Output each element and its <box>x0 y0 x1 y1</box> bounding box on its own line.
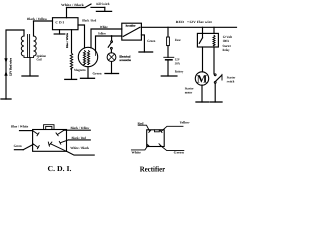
svg-text:White: White <box>131 151 141 155</box>
svg-text:White / Black: White / Black <box>61 3 84 7</box>
svg-text:White / Black: White / Black <box>70 146 89 150</box>
svg-text:switch: switch <box>227 80 235 84</box>
svg-text:Coil: Coil <box>37 57 42 61</box>
svg-text:Black / Yellow: Black / Yellow <box>27 17 48 21</box>
svg-text:Green: Green <box>14 144 22 148</box>
svg-text:Black / Yellow: Black / Yellow <box>71 126 90 130</box>
svg-text:Green: Green <box>174 151 184 155</box>
svg-text:100A: 100A <box>223 39 230 43</box>
svg-text:12V Red wire: 12V Red wire <box>8 57 12 76</box>
svg-text:motor: motor <box>185 90 193 94</box>
svg-text:C D I: C D I <box>55 21 64 25</box>
svg-text:Rectifier: Rectifier <box>140 164 166 173</box>
svg-text:Green: Green <box>93 72 102 76</box>
svg-text:Battery: Battery <box>175 69 184 73</box>
svg-text:RED +12V Flat wire: RED +12V Flat wire <box>176 20 213 24</box>
svg-text:C. D. I.: C. D. I. <box>48 164 72 173</box>
svg-text:Magneto: Magneto <box>74 68 86 72</box>
svg-text:White: White <box>100 25 108 29</box>
svg-text:50A: 50A <box>175 62 181 66</box>
svg-text:Kill Switch: Kill Switch <box>96 2 109 6</box>
svg-text:Yellow: Yellow <box>98 31 106 35</box>
svg-text:Rectifier: Rectifier <box>126 24 137 27</box>
svg-text:Green: Green <box>147 39 155 43</box>
svg-text:accessories: accessories <box>119 58 131 62</box>
svg-text:Black / Red: Black / Red <box>72 136 87 140</box>
svg-text:M: M <box>197 73 208 85</box>
svg-text:Blue / White: Blue / White <box>11 124 29 128</box>
svg-text:Blue / White: Blue / White <box>66 32 69 48</box>
svg-text:Black / Red: Black / Red <box>82 19 96 23</box>
svg-text:Fuse: Fuse <box>175 38 181 42</box>
svg-text:Relay: Relay <box>223 48 230 52</box>
svg-text:Yellow: Yellow <box>180 121 191 125</box>
